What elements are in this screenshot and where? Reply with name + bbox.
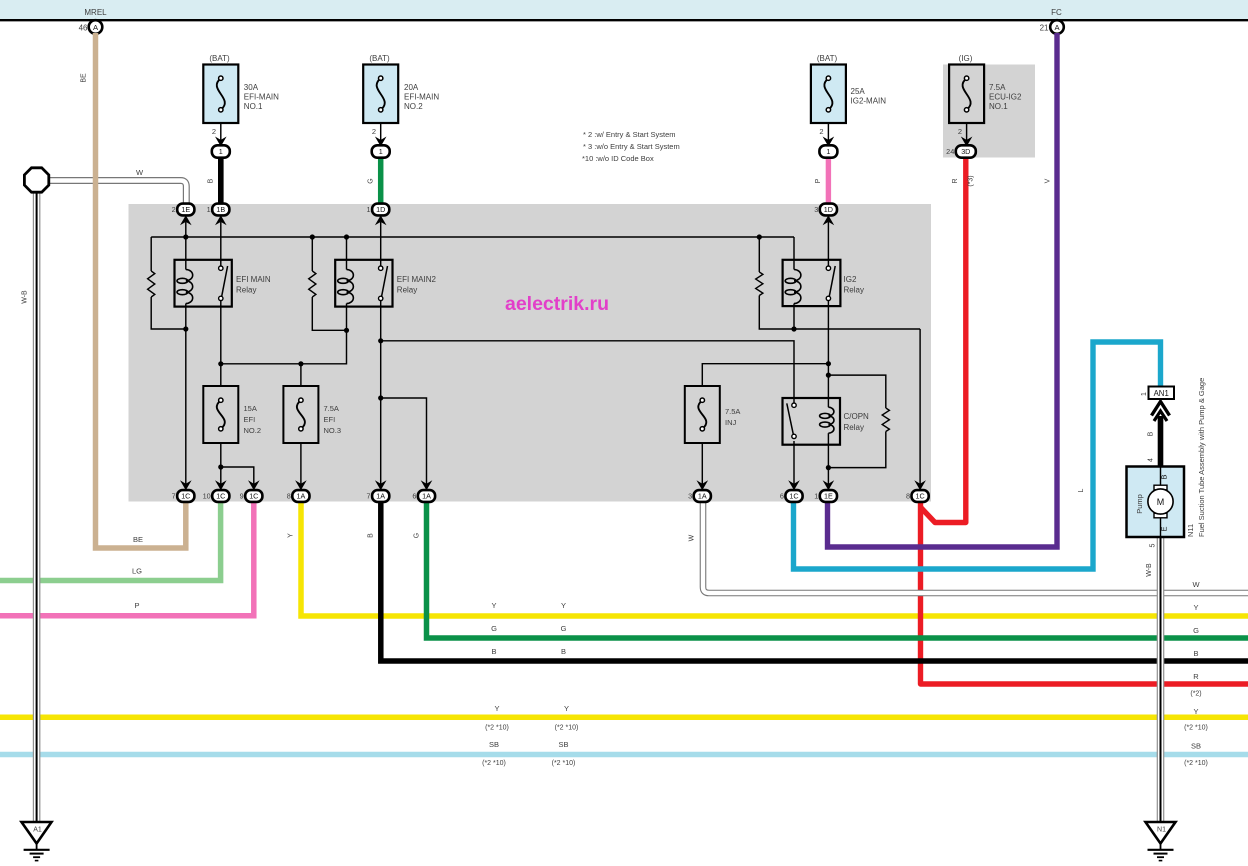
svg-text:B: B bbox=[1193, 649, 1198, 658]
svg-text:Y: Y bbox=[288, 533, 295, 538]
svg-text:Relay: Relay bbox=[844, 286, 864, 295]
wire LG from left edge to 10(1C) bbox=[0, 500, 221, 581]
svg-text:V: V bbox=[1045, 178, 1052, 183]
switch EFI MAIN2 bbox=[379, 266, 383, 270]
svg-text:1C: 1C bbox=[915, 492, 924, 501]
wire 7.5A EFI NO.3 out to 8(1A) bbox=[300, 443, 302, 490]
svg-text:ECU-IG2: ECU-IG2 bbox=[989, 93, 1022, 102]
fuse 25A IG2-MAIN bbox=[811, 65, 846, 124]
relay EFI MAIN2 box bbox=[335, 260, 392, 307]
svg-text:BE: BE bbox=[133, 535, 143, 544]
fuse 15A EFI NO.2 bbox=[203, 386, 238, 443]
svg-text:N1: N1 bbox=[1157, 827, 1166, 834]
svg-text:10: 10 bbox=[203, 492, 211, 501]
pump internal wires bbox=[1160, 467, 1162, 487]
svg-text:46: 46 bbox=[79, 23, 88, 32]
svg-text:G: G bbox=[491, 624, 497, 633]
wire to 8(1C) bbox=[919, 329, 921, 490]
wire branch to 7.5A EFI NO.3 bbox=[300, 364, 302, 386]
coil EFI MAIN2 bbox=[347, 270, 354, 304]
svg-text:1: 1 bbox=[367, 205, 371, 214]
connector 7(1C) bottom bbox=[180, 480, 192, 490]
svg-text:6: 6 bbox=[780, 492, 784, 501]
svg-text:7: 7 bbox=[367, 492, 371, 501]
svg-text:R: R bbox=[1193, 672, 1199, 681]
wire branch to 7.5A INJ fuse bbox=[702, 364, 828, 386]
wire L from 6(1C) to AN1 bbox=[794, 342, 1161, 569]
wire EFI MAIN coil out to 7(1C) bbox=[185, 307, 187, 490]
svg-text:Fuel Suction Tube Assembly wit: Fuel Suction Tube Assembly with Pump & G… bbox=[1197, 378, 1206, 537]
svg-text:1D: 1D bbox=[824, 205, 833, 214]
op relay EFI MAIN box bbox=[175, 260, 232, 307]
svg-text:G: G bbox=[561, 624, 567, 633]
fuse 7.5A ECU-IG2 NO.1 bbox=[949, 65, 984, 124]
svg-text:* 2 :w/ Entry & Start System: * 2 :w/ Entry & Start System bbox=[583, 130, 676, 139]
svg-text:AN1: AN1 bbox=[1154, 389, 1169, 398]
svg-text:1B: 1B bbox=[216, 205, 225, 214]
svg-text:IG2-MAIN: IG2-MAIN bbox=[851, 97, 887, 106]
wire EFI MAIN switch out bbox=[220, 301, 222, 386]
coil EFI MAIN bbox=[186, 270, 193, 304]
resistor R-EFI-MAIN2 leads bbox=[311, 237, 313, 271]
svg-text:3D: 3D bbox=[961, 147, 970, 156]
connector 8(1A) bottom bbox=[295, 480, 307, 490]
svg-text:(*2): (*2) bbox=[1190, 691, 1201, 698]
svg-text:1C: 1C bbox=[789, 492, 798, 501]
svg-text:aelectrik.ru: aelectrik.ru bbox=[505, 293, 609, 315]
svg-text:FC: FC bbox=[1051, 8, 1062, 17]
svg-text:W-B: W-B bbox=[22, 290, 29, 304]
wire R from fuse 3D down-left join bbox=[921, 157, 966, 523]
wire G from 6(1A) to right edge bbox=[427, 500, 1248, 638]
svg-text:Relay: Relay bbox=[236, 286, 256, 295]
junction dots EFI MAIN bbox=[183, 234, 188, 239]
wire 1E drop to coil bbox=[185, 222, 187, 270]
svg-text:G: G bbox=[414, 533, 421, 538]
svg-text:7: 7 bbox=[172, 492, 176, 501]
svg-text:EFI MAIN: EFI MAIN bbox=[236, 275, 271, 284]
relay C/OPN box bbox=[783, 398, 841, 445]
wire IG2 coil out bbox=[793, 306, 795, 329]
svg-text:Y: Y bbox=[491, 601, 496, 610]
node A (MREL) pin 46 bbox=[89, 20, 103, 34]
ground N1 bbox=[1146, 822, 1176, 844]
svg-text:1: 1 bbox=[379, 147, 383, 156]
resistor R-IG2 leads bbox=[758, 237, 760, 272]
svg-text:NO.3: NO.3 bbox=[324, 426, 342, 435]
svg-text:N11: N11 bbox=[1186, 524, 1195, 537]
octagon junction bbox=[24, 168, 48, 192]
svg-text:(*2 *10): (*2 *10) bbox=[1184, 760, 1208, 767]
connector AN1 bbox=[1149, 387, 1175, 400]
fuse 20A EFI-MAIN NO.2 bbox=[363, 65, 398, 124]
svg-text:1D: 1D bbox=[376, 205, 385, 214]
svg-text:1: 1 bbox=[219, 147, 223, 156]
wire B pump feed bbox=[1158, 416, 1164, 467]
svg-text:6: 6 bbox=[412, 492, 416, 501]
svg-text:1E: 1E bbox=[824, 492, 833, 501]
wire IG2 coil feed bbox=[793, 237, 795, 270]
wire B from 7(1A) to right edge bbox=[381, 500, 1248, 661]
svg-text:(BAT): (BAT) bbox=[369, 54, 390, 63]
svg-text:EFI-MAIN: EFI-MAIN bbox=[404, 93, 439, 102]
svg-text:* 3 :w/o Entry & Start System: * 3 :w/o Entry & Start System bbox=[583, 142, 680, 151]
wire W from 3(1A) to right edge (double line) bbox=[703, 500, 1248, 593]
svg-text:W: W bbox=[689, 534, 696, 541]
resistor EFI MAIN2 bbox=[309, 271, 316, 297]
wire EFI MAIN2 switch to C/OPN switch bbox=[381, 341, 794, 403]
svg-text:Relay: Relay bbox=[397, 286, 417, 295]
svg-text:EFI: EFI bbox=[324, 415, 336, 424]
wire BE from node A(MREL) to 7(1C) bbox=[96, 33, 186, 548]
connector 7(1A) bottom bbox=[375, 480, 387, 490]
svg-text:4: 4 bbox=[1148, 458, 1155, 462]
svg-text:2: 2 bbox=[958, 127, 962, 136]
svg-text:1C: 1C bbox=[249, 492, 258, 501]
svg-text:(*2 *10): (*2 *10) bbox=[1184, 725, 1208, 732]
svg-text:7.5A: 7.5A bbox=[989, 83, 1006, 92]
svg-text:3: 3 bbox=[814, 205, 818, 214]
svg-text:M: M bbox=[1157, 497, 1165, 507]
wire W from octagon to 2(1E) (double line) bbox=[47, 181, 186, 204]
connector 6(1C) bottom bbox=[788, 480, 800, 490]
svg-text:24: 24 bbox=[946, 147, 954, 156]
resistor C/OPN bbox=[882, 408, 889, 432]
switch IG2 bbox=[826, 266, 830, 270]
svg-text:21: 21 bbox=[1040, 23, 1049, 32]
svg-text:LG: LG bbox=[132, 567, 142, 576]
svg-text:Pump: Pump bbox=[1135, 494, 1144, 514]
svg-text:NO.2: NO.2 bbox=[404, 102, 423, 111]
svg-text:(*2 *10): (*2 *10) bbox=[485, 725, 509, 732]
wire Y lower full width bbox=[0, 715, 1248, 721]
svg-text:P: P bbox=[815, 178, 822, 183]
svg-text:1A: 1A bbox=[422, 492, 431, 501]
wire R from 8(1C) down to right edge bbox=[921, 500, 1248, 684]
resistor EFI MAIN bbox=[148, 271, 155, 297]
pump N11 box bbox=[1127, 467, 1185, 538]
connector 1(1D) top bbox=[375, 215, 387, 225]
svg-text:Y: Y bbox=[564, 704, 569, 713]
svg-text:1: 1 bbox=[814, 492, 818, 501]
svg-text:20A: 20A bbox=[404, 83, 419, 92]
svg-text:G: G bbox=[368, 178, 375, 183]
svg-text:L: L bbox=[1078, 488, 1085, 492]
connector 2(1E) top bbox=[180, 215, 192, 225]
relay IG2 box bbox=[783, 260, 841, 306]
svg-text:Y: Y bbox=[494, 704, 499, 713]
svg-text:W-B: W-B bbox=[1146, 563, 1153, 577]
connector 9(1C) bottom bbox=[248, 480, 260, 490]
svg-text:(BAT): (BAT) bbox=[209, 54, 230, 63]
svg-text:W: W bbox=[1192, 580, 1200, 589]
resistor R-C/OPN leads bbox=[828, 375, 885, 408]
svg-text:(*3): (*3) bbox=[968, 175, 975, 186]
svg-text:P: P bbox=[134, 601, 139, 610]
fuse 7.5A EFI NO.3 bbox=[283, 386, 318, 443]
connector 1(1B) top bbox=[215, 215, 227, 225]
resistor IG2 bbox=[756, 272, 763, 296]
wire branch to 6(1A) bbox=[381, 398, 427, 490]
svg-text:Relay: Relay bbox=[844, 423, 864, 432]
connector 10(1C) bottom bbox=[215, 480, 227, 490]
svg-text:INJ: INJ bbox=[725, 418, 737, 427]
top bus line bbox=[0, 19, 1248, 21]
top bus band bbox=[0, 0, 1248, 19]
svg-text:BE: BE bbox=[81, 73, 88, 83]
connector 3(1D) top bbox=[823, 215, 835, 225]
wire P from fuse 25A to 3(1D) bbox=[826, 157, 831, 203]
svg-text:1C: 1C bbox=[216, 492, 225, 501]
wire W-B from octagon to ground A1 bbox=[33, 191, 41, 822]
svg-text:15A: 15A bbox=[244, 404, 257, 413]
switch EFI MAIN bbox=[219, 266, 223, 270]
svg-text:EFI-MAIN: EFI-MAIN bbox=[244, 93, 279, 102]
wire 1B drop to switch bbox=[220, 222, 222, 266]
wire SB lower full width bbox=[0, 752, 1248, 758]
svg-text:B: B bbox=[1148, 431, 1155, 436]
ground A1 bbox=[22, 822, 52, 844]
resistor R-EFI-MAIN leads bbox=[150, 237, 152, 271]
wire V from FC node to 1(1E) bbox=[828, 33, 1058, 547]
svg-text:(*2 *10): (*2 *10) bbox=[482, 760, 506, 767]
wire EFI MAIN2 coil out to fuse row bbox=[221, 307, 347, 364]
wire G from fuse 20A to 1(1D) bbox=[378, 157, 384, 203]
svg-text:Y: Y bbox=[1193, 603, 1198, 612]
svg-text:NO.2: NO.2 bbox=[244, 426, 262, 435]
svg-text:7.5A: 7.5A bbox=[324, 404, 339, 413]
wire IG2 switch out to C/OPN coil bbox=[827, 301, 829, 398]
svg-text:(*2 *10): (*2 *10) bbox=[552, 760, 576, 767]
wire B from fuse 30A to 1(1B) bbox=[218, 157, 224, 203]
svg-text:B: B bbox=[491, 647, 496, 656]
svg-text:2: 2 bbox=[172, 205, 176, 214]
connector 1(1E) bottom bbox=[823, 480, 835, 490]
svg-text:(IG): (IG) bbox=[959, 54, 973, 63]
svg-text:2: 2 bbox=[212, 127, 216, 136]
svg-text:7.5A: 7.5A bbox=[725, 407, 740, 416]
gray box behind ECU-IG2 fuse bbox=[943, 65, 1035, 158]
svg-text:1C: 1C bbox=[181, 492, 190, 501]
coil IG2 bbox=[794, 270, 801, 304]
svg-text:9: 9 bbox=[240, 492, 244, 501]
switch C/OPN bbox=[792, 403, 796, 407]
connector 6(1A) bottom bbox=[421, 480, 433, 490]
svg-text:1E: 1E bbox=[181, 205, 190, 214]
svg-text:R: R bbox=[952, 178, 959, 183]
fuse 30A EFI-MAIN NO.1 bbox=[203, 65, 238, 124]
svg-text:1A: 1A bbox=[698, 492, 707, 501]
node A (FC) pin 21 bbox=[1050, 20, 1064, 34]
svg-text:8: 8 bbox=[287, 492, 291, 501]
svg-text:C/OPN: C/OPN bbox=[844, 412, 870, 421]
svg-text:SB: SB bbox=[558, 740, 568, 749]
svg-text:1A: 1A bbox=[376, 492, 385, 501]
wire 1D drop to EFI MAIN2 switch bbox=[380, 222, 382, 266]
svg-text:3: 3 bbox=[688, 492, 692, 501]
coil C/OPN bbox=[828, 407, 834, 433]
svg-text:EFI MAIN2: EFI MAIN2 bbox=[397, 275, 437, 284]
wire C/OPN coil out to 1(1E) bbox=[827, 433, 829, 490]
svg-text:B: B bbox=[561, 647, 566, 656]
svg-text:NO.1: NO.1 bbox=[989, 102, 1008, 111]
svg-text:2: 2 bbox=[372, 127, 376, 136]
wire Y from 8(1A) to right edge bbox=[301, 500, 1248, 616]
svg-text:*10 :w/o ID Code Box: *10 :w/o ID Code Box bbox=[582, 154, 654, 163]
svg-text:5: 5 bbox=[1150, 543, 1157, 547]
svg-text:SB: SB bbox=[1191, 742, 1201, 751]
svg-text:B: B bbox=[368, 533, 375, 538]
wire 15A EFI NO.2 out with branch to 9(1C) bbox=[220, 443, 222, 490]
motor M bbox=[1154, 485, 1167, 490]
wire C/OPN switch out to 6(1C) bbox=[793, 441, 795, 490]
fuse 7.5A INJ bbox=[685, 386, 720, 443]
svg-text:G: G bbox=[1193, 626, 1199, 635]
svg-text:2: 2 bbox=[819, 127, 823, 136]
svg-text:W: W bbox=[136, 168, 144, 177]
relay block J/B (gray box) bbox=[129, 204, 932, 502]
wire 7.5A INJ out to 3(1A) bbox=[701, 443, 703, 490]
svg-text:MREL: MREL bbox=[84, 8, 107, 17]
svg-text:Y: Y bbox=[561, 601, 566, 610]
connector 3(1A) bottom bbox=[697, 480, 709, 490]
svg-text:1: 1 bbox=[207, 205, 211, 214]
svg-text:IG2: IG2 bbox=[844, 275, 857, 284]
svg-text:NO.1: NO.1 bbox=[244, 102, 263, 111]
svg-text:B: B bbox=[208, 178, 215, 183]
svg-text:A1: A1 bbox=[33, 827, 42, 834]
svg-text:B: B bbox=[1160, 474, 1169, 479]
svg-text:E: E bbox=[1160, 526, 1169, 531]
wire EFI MAIN2 coil feed bbox=[346, 237, 348, 270]
wire EFI MAIN2 switch out to 7(1A) bbox=[380, 301, 382, 490]
svg-text:1: 1 bbox=[1141, 392, 1148, 396]
bus wire y=237 bbox=[151, 236, 794, 238]
svg-text:1A: 1A bbox=[297, 492, 306, 501]
svg-text:8: 8 bbox=[906, 492, 910, 501]
svg-text:25A: 25A bbox=[851, 87, 866, 96]
arrow into AN1 bbox=[1152, 402, 1170, 416]
svg-text:Y: Y bbox=[1193, 707, 1198, 716]
svg-text:(BAT): (BAT) bbox=[817, 54, 838, 63]
wire P from left edge to 9(1C) bbox=[0, 500, 254, 616]
svg-text:(*2 *10): (*2 *10) bbox=[555, 725, 579, 732]
wire W-B from pump E to ground N1 bbox=[1157, 537, 1165, 822]
svg-text:1: 1 bbox=[826, 147, 830, 156]
wire 3(1D) drop to IG2 switch bbox=[827, 222, 829, 266]
svg-text:EFI: EFI bbox=[244, 415, 256, 424]
svg-text:30A: 30A bbox=[244, 83, 259, 92]
connector 8(1C) bottom bbox=[914, 480, 926, 490]
svg-text:SB: SB bbox=[489, 740, 499, 749]
